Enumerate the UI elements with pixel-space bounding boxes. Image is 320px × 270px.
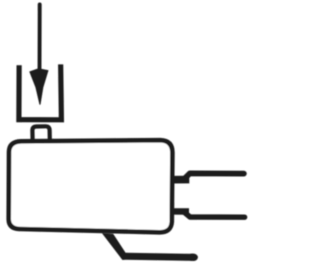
plunger guide bracket (U-shape) <box>19 67 62 120</box>
switch body S1 <box>9 140 173 232</box>
terminal COM lead end blob <box>187 254 198 261</box>
terminal NO lead <box>184 173 244 179</box>
terminal NC lead <box>184 212 245 217</box>
terminal NC stub <box>173 208 189 215</box>
actuator force arrowhead <box>30 69 48 105</box>
actuator force arrow shaft <box>38 5 42 72</box>
plunger button <box>32 126 49 140</box>
terminal NO stub <box>173 176 190 184</box>
terminal COM riser (diagonal) <box>104 234 129 259</box>
terminal COM lead <box>124 256 194 257</box>
